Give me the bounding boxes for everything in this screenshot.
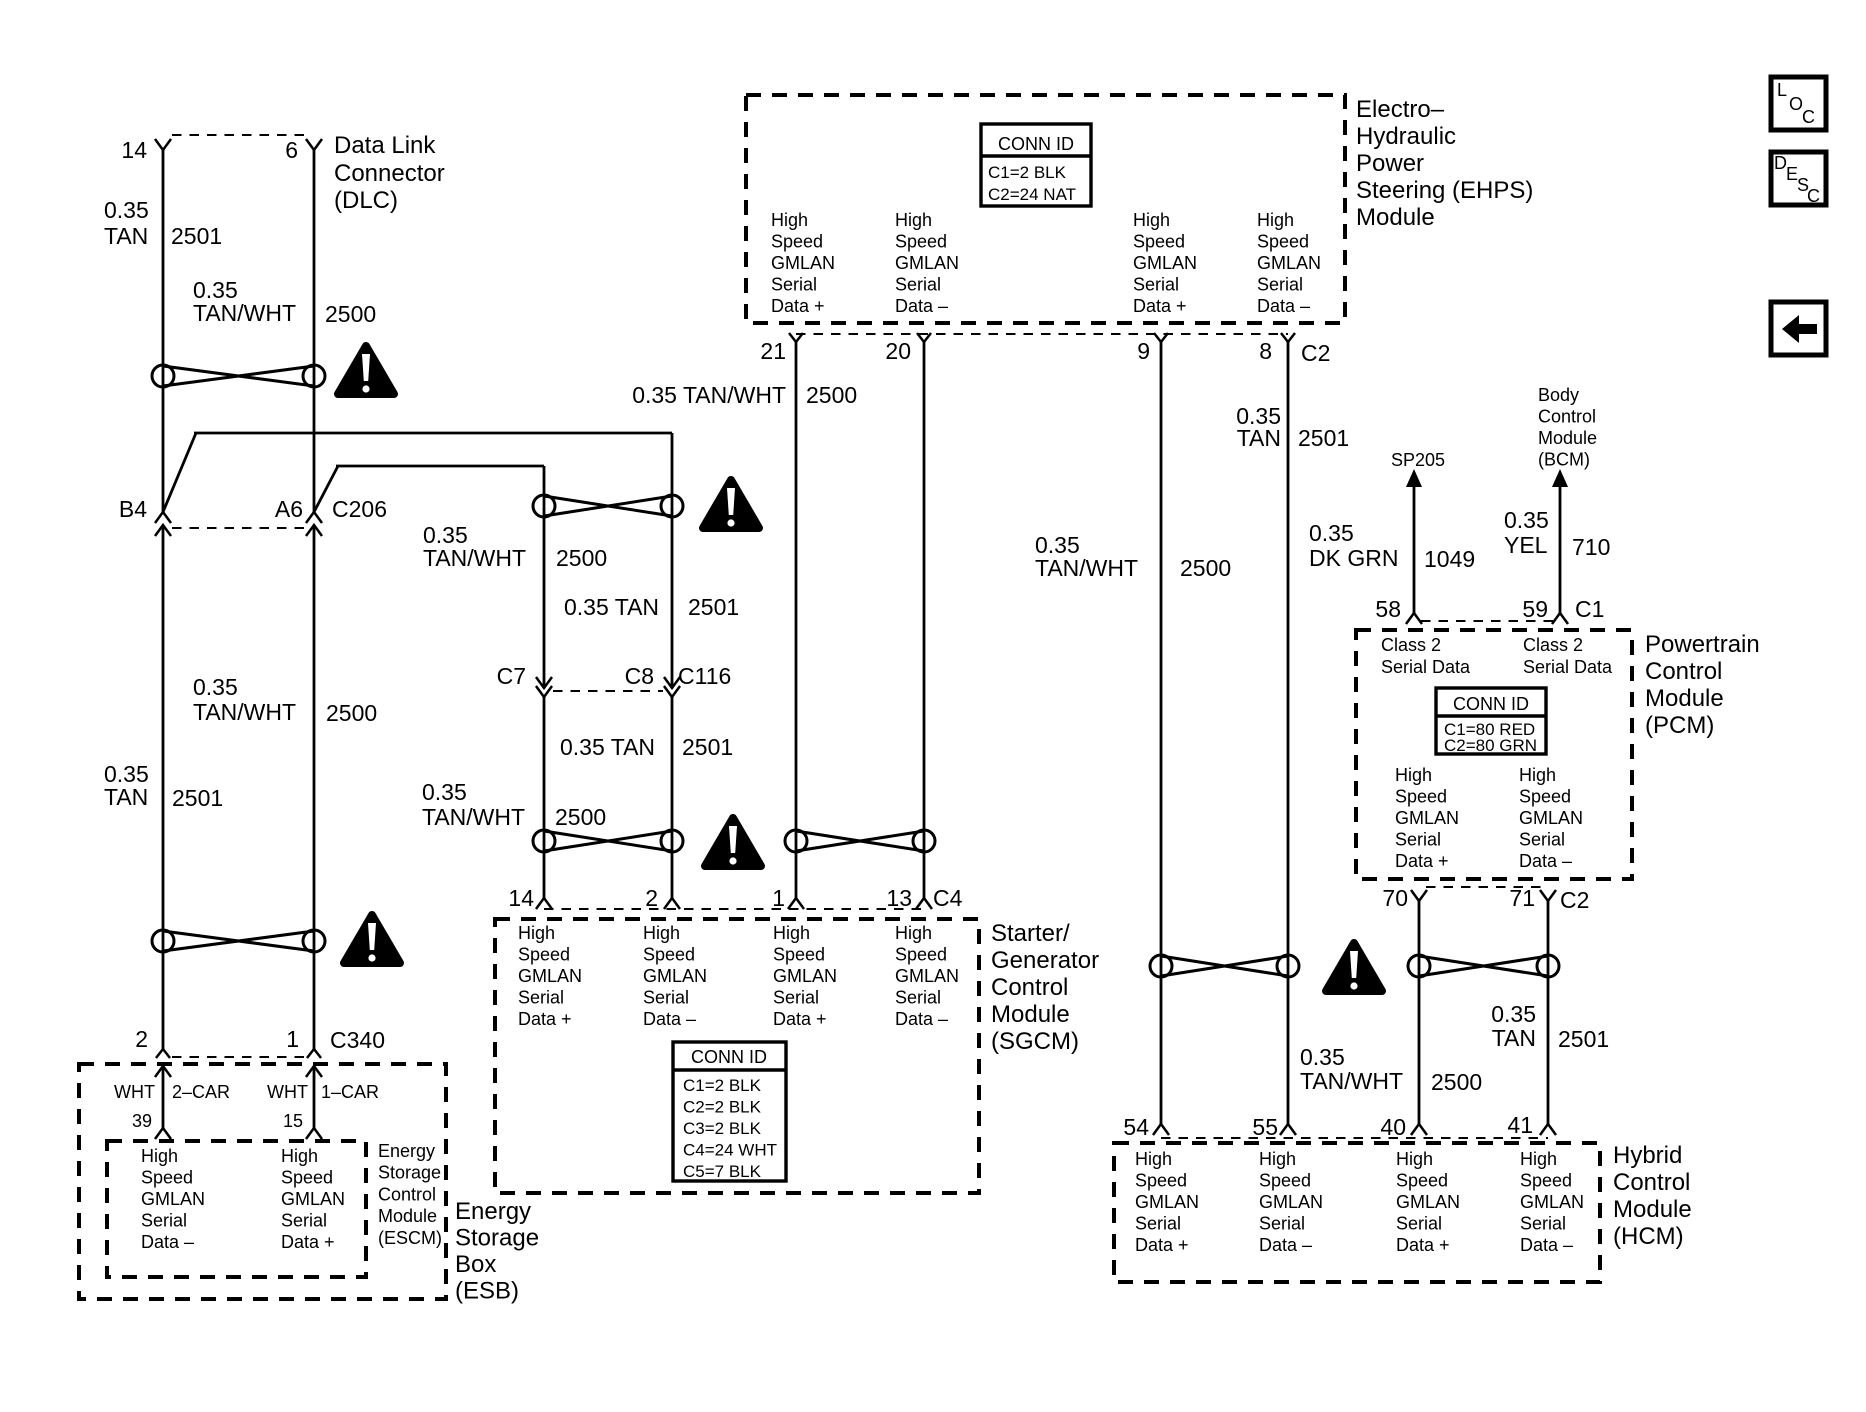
svg-text:Data –: Data – xyxy=(1259,1235,1312,1255)
svg-text:TAN/WHT: TAN/WHT xyxy=(422,804,525,830)
off-page arrow to splice SP205 xyxy=(1391,450,1445,613)
svg-text:Class 2: Class 2 xyxy=(1381,635,1441,655)
svg-text:SP205: SP205 xyxy=(1391,450,1445,470)
svg-text:(ESB): (ESB) xyxy=(455,1278,519,1305)
svg-text:DK GRN: DK GRN xyxy=(1309,545,1398,571)
svg-text:GMLAN: GMLAN xyxy=(1520,1192,1584,1212)
wire 2500 TAN/WHT from EHPS pin 21 to SGCM pin 1 xyxy=(795,342,798,898)
wire 2500 TAN/WHT from DLC pin 6 to connector C206 pin A6 xyxy=(313,150,316,512)
connector C340 mating dashed line xyxy=(172,1056,305,1058)
wire 2501 TAN from C116 pin C7 to SGCM pin 14 xyxy=(543,697,546,898)
HCM connector mating dashed line xyxy=(1161,1137,1548,1139)
wire 2501 TAN from EHPS pin 20 to SGCM pin 13 xyxy=(923,342,926,898)
svg-text:Data +: Data + xyxy=(773,1009,827,1029)
PCM pin 58 xyxy=(1375,596,1422,624)
SGCM pin 2 pin function label: High Speed GMLAN Serial Data &#8211; xyxy=(643,923,707,1029)
svg-text:Serial: Serial xyxy=(281,1211,327,1231)
connector C340 pin 1 xyxy=(286,1026,321,1058)
svg-text:Hybrid: Hybrid xyxy=(1613,1142,1682,1169)
svg-text:Data –: Data – xyxy=(1519,851,1572,871)
ESCM pin 39 pin function label: High Speed GMLAN Serial Data &#8211; xyxy=(141,1146,205,1252)
svg-text:2500: 2500 xyxy=(806,382,857,408)
svg-text:70: 70 xyxy=(1382,885,1408,911)
warning note above ESB (warning triangle) xyxy=(344,915,400,963)
svg-text:Data +: Data + xyxy=(281,1232,335,1252)
svg-text:40: 40 xyxy=(1380,1114,1406,1140)
warning note near DLC (warning triangle) xyxy=(338,346,394,394)
svg-text:TAN: TAN xyxy=(1237,425,1281,451)
connector C116 pin C7 (lower half) xyxy=(536,686,552,697)
wire 2500 TAN/WHT from C116 pin C8 to SGCM pin 2 xyxy=(671,697,674,898)
EHPS pin 8 pin function label: High Speed GMLAN Serial Data &#8211; xyxy=(1257,210,1321,316)
svg-text:Serial: Serial xyxy=(771,275,817,295)
connector C206 pin A6 (upper half) xyxy=(275,496,322,523)
svg-text:Serial: Serial xyxy=(1395,830,1441,850)
svg-text:High: High xyxy=(1396,1149,1433,1169)
svg-text:Control: Control xyxy=(1613,1169,1690,1196)
svg-text:High: High xyxy=(1519,765,1556,785)
svg-text:GMLAN: GMLAN xyxy=(895,966,959,986)
HCM pin 40 pin function label: High Speed GMLAN Serial Data + xyxy=(1396,1149,1460,1255)
wire label WHT 1-CAR xyxy=(267,1082,379,1102)
svg-text:1–CAR: 1–CAR xyxy=(321,1082,379,1102)
svg-text:Speed: Speed xyxy=(643,945,695,965)
svg-text:Class 2: Class 2 xyxy=(1523,635,1583,655)
wire segment: horizontal bus 2501 from A6 to C7 drop xyxy=(336,465,544,468)
HCM pin 41 pin function label: High Speed GMLAN Serial Data &#8211; xyxy=(1520,1149,1584,1255)
svg-text:Generator: Generator xyxy=(991,947,1099,974)
HCM pin 54 pin function label: High Speed GMLAN Serial Data + xyxy=(1135,1149,1199,1255)
connector C206 pin A6 (lower half, arrow) xyxy=(306,525,322,536)
svg-text:Serial Data: Serial Data xyxy=(1523,657,1613,677)
svg-text:High: High xyxy=(895,923,932,943)
wire 2501 TAN from EHPS pin 8 to HCM pin 55 xyxy=(1287,342,1290,1124)
svg-text:Speed: Speed xyxy=(1133,232,1185,252)
svg-text:Module: Module xyxy=(378,1206,437,1226)
EHPS pin 21 xyxy=(760,333,803,364)
svg-text:High: High xyxy=(141,1146,178,1166)
wire label 0.35 TAN 2501 (above C8) xyxy=(564,594,739,620)
svg-text:(BCM): (BCM) xyxy=(1538,450,1590,470)
svg-text:Serial: Serial xyxy=(1257,275,1303,295)
svg-text:Speed: Speed xyxy=(773,945,825,965)
svg-text:Data –: Data – xyxy=(1257,296,1310,316)
svg-text:Module: Module xyxy=(991,1001,1070,1028)
svg-text:55: 55 xyxy=(1252,1114,1278,1140)
svg-text:Storage: Storage xyxy=(378,1163,441,1183)
connector C116 mating dashed line xyxy=(553,690,663,692)
PCM pin 71 pin function label: High Speed GMLAN Serial Data &#8211; xyxy=(1519,765,1583,871)
PCM CONN ID table xyxy=(1436,688,1546,755)
wire segment: drop from bus to connector C116 pin C7 xyxy=(543,466,546,688)
svg-text:C1: C1 xyxy=(1575,596,1604,622)
svg-text:Data +: Data + xyxy=(1135,1235,1189,1255)
svg-text:2501: 2501 xyxy=(1558,1026,1609,1052)
svg-text:High: High xyxy=(1520,1149,1557,1169)
svg-text:Data +: Data + xyxy=(1396,1235,1450,1255)
svg-text:CONN ID: CONN ID xyxy=(998,134,1074,154)
svg-text:WHT: WHT xyxy=(267,1082,308,1102)
svg-text:C7: C7 xyxy=(497,663,526,689)
svg-text:Serial: Serial xyxy=(1396,1214,1442,1234)
ESB internal pin 39 wire with arrow into ESCM xyxy=(155,1066,171,1139)
svg-text:2500: 2500 xyxy=(326,700,377,726)
reference box DESC xyxy=(1771,152,1826,206)
svg-text:Steering (EHPS): Steering (EHPS) xyxy=(1356,177,1533,204)
svg-text:O: O xyxy=(1789,94,1803,114)
svg-text:High: High xyxy=(1259,1149,1296,1169)
module label: Energy Storage Control Module (ESCM) xyxy=(378,1141,442,1248)
svg-text:C2=2 BLK: C2=2 BLK xyxy=(683,1098,762,1117)
svg-text:GMLAN: GMLAN xyxy=(1133,253,1197,273)
SGCM connector mating dashed line xyxy=(544,908,924,910)
svg-text:0.35 TAN/WHT: 0.35 TAN/WHT xyxy=(632,382,786,408)
svg-text:High: High xyxy=(771,210,808,230)
wire 2500 TAN/WHT from C206 pin A6 to ESB connector C340 pin 1 xyxy=(313,525,316,1049)
svg-text:Control: Control xyxy=(1645,658,1722,685)
svg-text:14: 14 xyxy=(121,137,147,163)
svg-text:Serial: Serial xyxy=(643,988,689,1008)
svg-text:Speed: Speed xyxy=(895,232,947,252)
ESCM pin 15 pin function label: High Speed GMLAN Serial Data + xyxy=(281,1146,345,1252)
svg-text:High: High xyxy=(1395,765,1432,785)
svg-text:2500: 2500 xyxy=(325,301,376,327)
svg-text:Starter/: Starter/ xyxy=(991,920,1070,947)
wire label 0.35 DK GRN 1049 xyxy=(1309,520,1475,572)
svg-text:Electro–: Electro– xyxy=(1356,96,1445,123)
svg-text:Speed: Speed xyxy=(1519,787,1571,807)
svg-text:0.35: 0.35 xyxy=(104,197,149,223)
SGCM pin 2 xyxy=(645,885,680,911)
svg-text:CONN ID: CONN ID xyxy=(1453,694,1529,714)
HCM pin 55 xyxy=(1252,1114,1296,1140)
svg-text:Data –: Data – xyxy=(643,1009,696,1029)
svg-text:Data –: Data – xyxy=(895,296,948,316)
wire label 0.35 TAN/WHT 2500 (EHPS pin 9) xyxy=(1035,532,1231,581)
module label: Electro-Hydraulic Power Steering (EHPS) Module xyxy=(1356,96,1533,231)
svg-text:L: L xyxy=(1777,80,1787,100)
svg-text:9: 9 xyxy=(1137,338,1150,364)
wire label 0.35 TAN/WHT 2500 (EHPS pin 21) xyxy=(632,382,857,408)
HCM pin 40 xyxy=(1380,1114,1427,1140)
svg-text:C2: C2 xyxy=(1301,340,1330,366)
svg-text:(HCM): (HCM) xyxy=(1613,1223,1684,1250)
svg-text:Serial: Serial xyxy=(895,988,941,1008)
svg-text:C8: C8 xyxy=(625,663,654,689)
EHPS pin 9 pin function label: High Speed GMLAN Serial Data + xyxy=(1133,210,1197,316)
svg-text:C1=2 BLK: C1=2 BLK xyxy=(683,1076,762,1095)
svg-text:Serial: Serial xyxy=(773,988,819,1008)
svg-text:High: High xyxy=(1135,1149,1172,1169)
svg-text:Control: Control xyxy=(991,974,1068,1001)
connector C340 pin 2 xyxy=(135,1026,170,1058)
wire 2501 TAN from DLC pin 14 to connector C206 pin B4 xyxy=(162,150,165,512)
svg-text:Serial Data: Serial Data xyxy=(1381,657,1471,677)
svg-text:Data +: Data + xyxy=(1133,296,1187,316)
svg-text:59: 59 xyxy=(1522,596,1548,622)
svg-text:2–CAR: 2–CAR xyxy=(172,1082,230,1102)
svg-text:2: 2 xyxy=(645,885,658,911)
twisted pair above SGCM pins 14/2 (twisted pair symbol) xyxy=(533,830,683,852)
connector C116 pin C8 (upper half, arrow) xyxy=(625,663,680,689)
twisted pair above HCM pins 54/55 (twisted pair symbol) xyxy=(1150,955,1299,977)
svg-text:Powertrain: Powertrain xyxy=(1645,631,1760,658)
svg-text:Data –: Data – xyxy=(141,1232,194,1252)
wire label 0.35 TAN/WHT 2500 xyxy=(193,277,376,327)
module label: Data Link Connector (DLC) xyxy=(334,132,445,214)
wire label 0.35 TAN 2501 (EHPS pin 8) xyxy=(1236,403,1349,451)
module box: Energy Storage Control Module (ESCM) xyxy=(107,1141,366,1277)
svg-text:14: 14 xyxy=(508,885,534,911)
svg-text:Module: Module xyxy=(1645,685,1724,712)
svg-text:(ESCM): (ESCM) xyxy=(378,1228,442,1248)
svg-text:High: High xyxy=(1257,210,1294,230)
wire label 0.35 TAN/WHT 2500 (PCM pin 70) xyxy=(1300,1044,1482,1095)
svg-text:Storage: Storage xyxy=(455,1225,539,1252)
svg-text:High: High xyxy=(773,923,810,943)
warning note above HCM (warning triangle) xyxy=(1326,943,1382,991)
svg-text:TAN: TAN xyxy=(104,223,148,249)
PCM pin 71 xyxy=(1509,885,1556,911)
module label: Powertrain Control Module (PCM) xyxy=(1645,631,1760,739)
svg-text:20: 20 xyxy=(885,338,911,364)
connector C206 pin B4 (lower half, arrow) xyxy=(155,525,171,536)
twisted pair above ESB (twisted pair symbol) xyxy=(152,930,325,952)
svg-text:TAN: TAN xyxy=(104,784,148,810)
svg-text:Data –: Data – xyxy=(1520,1235,1573,1255)
svg-text:(SGCM): (SGCM) xyxy=(991,1028,1079,1055)
off-page arrow to Body Control Module (BCM) xyxy=(1538,385,1597,613)
svg-text:Energy: Energy xyxy=(455,1198,531,1225)
reference box back-arrow xyxy=(1771,302,1826,355)
svg-text:2501: 2501 xyxy=(172,785,223,811)
svg-text:TAN/WHT: TAN/WHT xyxy=(193,699,296,725)
svg-text:GMLAN: GMLAN xyxy=(518,966,582,986)
svg-text:Hydraulic: Hydraulic xyxy=(1356,123,1456,150)
svg-text:Data +: Data + xyxy=(771,296,825,316)
SGCM CONN ID table xyxy=(673,1042,786,1181)
ESB internal pin 15 wire with arrow into ESCM xyxy=(306,1066,322,1139)
svg-text:TAN/WHT: TAN/WHT xyxy=(423,545,526,571)
wire 2500 TAN/WHT from EHPS pin 9 to HCM pin 54 xyxy=(1160,342,1163,1124)
twisted pair above SGCM pins 1/13 (twisted pair symbol) xyxy=(785,830,935,852)
svg-text:1049: 1049 xyxy=(1424,546,1475,572)
svg-text:Power: Power xyxy=(1356,150,1424,177)
svg-text:TAN/WHT: TAN/WHT xyxy=(1300,1068,1403,1094)
module label: Hybrid Control Module (HCM) xyxy=(1613,1142,1692,1250)
svg-text:GMLAN: GMLAN xyxy=(281,1189,345,1209)
EHPS pin 20 pin function label: High Speed GMLAN Serial Data &#8211; xyxy=(895,210,959,316)
wire label WHT 2-CAR xyxy=(114,1082,230,1102)
svg-text:High: High xyxy=(643,923,680,943)
connector C206 mating dashed line xyxy=(172,527,305,529)
svg-text:0.35 TAN: 0.35 TAN xyxy=(564,594,659,620)
svg-text:0.35: 0.35 xyxy=(1309,520,1354,546)
svg-text:YEL: YEL xyxy=(1504,532,1548,558)
svg-text:Serial: Serial xyxy=(1135,1214,1181,1234)
svg-text:Speed: Speed xyxy=(1396,1171,1448,1191)
svg-text:Speed: Speed xyxy=(1520,1171,1572,1191)
svg-text:39: 39 xyxy=(132,1111,152,1131)
PCM pin 58 function label: Class 2 Serial Data xyxy=(1381,635,1471,677)
wire 2501 TAN from C206 pin B4 to ESB connector C340 pin 2 xyxy=(162,525,165,1049)
svg-text:Speed: Speed xyxy=(895,945,947,965)
SGCM pin 13 pin function label: High Speed GMLAN Serial Data &#8211; xyxy=(895,923,959,1029)
connector C116 pin C8 (lower half) xyxy=(664,686,680,697)
svg-text:Energy: Energy xyxy=(378,1141,435,1161)
svg-text:58: 58 xyxy=(1375,596,1401,622)
svg-text:Data +: Data + xyxy=(1395,851,1449,871)
EHPS connector mating dashed line xyxy=(796,333,1288,335)
svg-text:54: 54 xyxy=(1123,1114,1149,1140)
module box: Hybrid Control Module (HCM) xyxy=(1114,1143,1600,1282)
wire segment: drop from bus to connector C116 pin C8 xyxy=(671,433,674,688)
wire label 0.35 TAN/WHT 2500 (C206 row) xyxy=(423,522,607,571)
module box: Electro-Hydraulic Power Steering (EHPS) Module xyxy=(746,95,1345,323)
svg-text:Speed: Speed xyxy=(281,1168,333,1188)
svg-text:2500: 2500 xyxy=(1431,1069,1482,1095)
svg-text:C2=80 GRN: C2=80 GRN xyxy=(1444,736,1537,755)
module box: Powertrain Control Module (PCM) xyxy=(1356,630,1632,879)
EHPS CONN ID table xyxy=(981,124,1091,206)
svg-text:GMLAN: GMLAN xyxy=(1259,1192,1323,1212)
svg-text:GMLAN: GMLAN xyxy=(1519,808,1583,828)
HCM pin 41 xyxy=(1507,1112,1556,1138)
wire label 0.35 TAN/WHT 2500 (below C7) xyxy=(422,779,606,830)
svg-text:41: 41 xyxy=(1507,1112,1533,1138)
svg-text:High: High xyxy=(895,210,932,230)
svg-text:C116: C116 xyxy=(678,663,731,689)
svg-text:C5=7 BLK: C5=7 BLK xyxy=(683,1162,762,1181)
svg-text:GMLAN: GMLAN xyxy=(1395,808,1459,828)
twisted pair above HCM pins 40/41 (twisted pair symbol) xyxy=(1408,955,1559,977)
wire label 0.35 TAN/WHT 2500 (mid left) xyxy=(193,674,377,726)
module box: Energy Storage Box (ESB) xyxy=(79,1064,446,1299)
wire 2501 TAN from PCM pin 71 to HCM pin 41 xyxy=(1547,901,1550,1124)
SGCM pin 1 pin function label: High Speed GMLAN Serial Data + xyxy=(773,923,837,1029)
svg-text:Serial: Serial xyxy=(1133,275,1179,295)
svg-text:2500: 2500 xyxy=(1180,555,1231,581)
PCM pin 59 function label: Class 2 Serial Data xyxy=(1523,635,1613,677)
svg-text:Speed: Speed xyxy=(1135,1171,1187,1191)
wire label 0.35 TAN 2501 (PCM pin 71) xyxy=(1491,1001,1609,1052)
DLC pin 14 xyxy=(121,137,171,163)
wire label 0.35 TAN 2501 (below C8) xyxy=(560,734,733,760)
svg-text:(DLC): (DLC) xyxy=(334,187,398,214)
wire label 0.35 TAN 2501 (mid left) xyxy=(104,761,223,811)
connector: Data Link Connector (DLC) dashed outline xyxy=(172,134,305,136)
svg-text:Serial: Serial xyxy=(1259,1214,1305,1234)
wire segment: diagonal from A6 junction xyxy=(314,466,338,512)
svg-text:Serial: Serial xyxy=(1519,830,1565,850)
wire segment: diagonal from B4 junction xyxy=(163,433,196,512)
svg-text:2501: 2501 xyxy=(1298,425,1349,451)
wire label 0.35 TAN 2501 xyxy=(104,197,222,249)
svg-text:GMLAN: GMLAN xyxy=(773,966,837,986)
warning note above SGCM (warning triangle) xyxy=(705,818,761,866)
DLC pin 6 xyxy=(285,137,322,163)
wire segment: horizontal bus 2500 from B4 to C8 drop xyxy=(194,432,672,435)
svg-text:0.35 TAN: 0.35 TAN xyxy=(560,734,655,760)
svg-text:Box: Box xyxy=(455,1251,496,1278)
svg-text:High: High xyxy=(281,1146,318,1166)
wire 2500 TAN/WHT from PCM pin 70 to HCM pin 40 xyxy=(1418,901,1421,1124)
connector C116 pin C7 (upper half, arrow) xyxy=(497,663,552,689)
svg-text:6: 6 xyxy=(285,137,298,163)
PCM connector mating dashed line (bottom) xyxy=(1426,886,1541,888)
svg-text:TAN/WHT: TAN/WHT xyxy=(193,300,296,326)
svg-text:Control: Control xyxy=(378,1184,436,1204)
svg-text:1: 1 xyxy=(286,1026,299,1052)
svg-text:Speed: Speed xyxy=(141,1168,193,1188)
svg-text:0.35: 0.35 xyxy=(1504,507,1549,533)
svg-text:Data –: Data – xyxy=(895,1009,948,1029)
twisted pair above C116 (twisted pair symbol) xyxy=(533,495,683,517)
svg-text:2500: 2500 xyxy=(555,804,606,830)
svg-text:GMLAN: GMLAN xyxy=(1135,1192,1199,1212)
svg-text:C206: C206 xyxy=(332,496,387,522)
svg-text:Serial: Serial xyxy=(1520,1214,1566,1234)
svg-text:2500: 2500 xyxy=(556,545,607,571)
svg-text:Data Link: Data Link xyxy=(334,132,436,159)
EHPS pin 8 xyxy=(1259,333,1295,364)
svg-text:Module: Module xyxy=(1613,1196,1692,1223)
svg-text:0.35: 0.35 xyxy=(1300,1044,1345,1070)
module box: Starter/Generator Control Module (SGCM) xyxy=(495,919,979,1193)
EHPS pin 20 xyxy=(885,333,931,364)
svg-text:TAN/WHT: TAN/WHT xyxy=(1035,555,1138,581)
svg-text:Control: Control xyxy=(1538,407,1596,427)
SGCM pin 1 xyxy=(772,885,804,911)
svg-text:WHT: WHT xyxy=(114,1082,155,1102)
svg-text:Data +: Data + xyxy=(518,1009,572,1029)
svg-text:2501: 2501 xyxy=(688,594,739,620)
svg-text:C4=24 WHT: C4=24 WHT xyxy=(683,1141,777,1160)
svg-text:Speed: Speed xyxy=(1257,232,1309,252)
PCM connector mating dashed line (top) xyxy=(1421,620,1553,622)
svg-text:0.35: 0.35 xyxy=(1491,1001,1536,1027)
svg-text:C: C xyxy=(1807,186,1820,206)
warning note near C206 bus (warning triangle) xyxy=(703,480,759,528)
svg-text:High: High xyxy=(518,923,555,943)
SGCM pin 14 pin function label: High Speed GMLAN Serial Data + xyxy=(518,923,582,1029)
svg-text:Module: Module xyxy=(1538,428,1597,448)
PCM pin 70 xyxy=(1382,885,1427,911)
svg-text:GMLAN: GMLAN xyxy=(895,253,959,273)
PCM pin 70 pin function label: High Speed GMLAN Serial Data + xyxy=(1395,765,1459,871)
svg-text:GMLAN: GMLAN xyxy=(1257,253,1321,273)
EHPS pin 21 pin function label: High Speed GMLAN Serial Data + xyxy=(771,210,835,316)
svg-text:(PCM): (PCM) xyxy=(1645,712,1714,739)
connector C206 pin B4 (upper half) xyxy=(119,496,171,523)
svg-text:C340: C340 xyxy=(330,1027,385,1053)
svg-text:Serial: Serial xyxy=(141,1211,187,1231)
svg-text:2: 2 xyxy=(135,1026,148,1052)
twisted pair 2500/2501 above C206 (twisted pair symbol) xyxy=(152,365,325,387)
svg-text:Module: Module xyxy=(1356,204,1435,231)
svg-text:Serial: Serial xyxy=(518,988,564,1008)
svg-text:Body: Body xyxy=(1538,385,1579,405)
svg-text:71: 71 xyxy=(1509,885,1535,911)
svg-text:Connector: Connector xyxy=(334,160,445,187)
svg-text:21: 21 xyxy=(760,338,786,364)
reference box LOC xyxy=(1771,77,1826,130)
svg-text:Speed: Speed xyxy=(1395,787,1447,807)
module label: Starter/Generator Control Module (SGCM) xyxy=(991,920,1099,1055)
svg-text:C2: C2 xyxy=(1560,887,1589,913)
PCM pin 59 xyxy=(1522,596,1568,624)
svg-text:C4: C4 xyxy=(933,885,963,911)
